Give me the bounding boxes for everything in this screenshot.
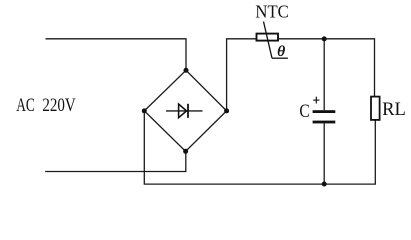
resistor RL body [371,97,380,120]
svg-text:AC: AC [16,95,35,116]
thermistor foot [272,57,288,59]
svg-text:C: C [299,102,309,122]
svg-text:NTC: NTC [255,1,288,21]
wire bottom AC horizontal + bridge bottom riser [45,151,186,171]
svg-text:220V: 220V [42,95,76,116]
thermistor NTC body [257,22,288,59]
node bridge top [184,68,189,73]
bridge rectifier diamond [144,70,226,151]
node bridge left [142,108,147,113]
svg-text:θ: θ [277,44,286,60]
wire capacitor branch upper [323,39,325,110]
node bridge right [224,108,229,113]
wire top AC horizontal + drop to bridge top [46,39,187,71]
diode D1 cathode bar [187,104,189,118]
capacitor plus sign [313,97,319,104]
svg-text:RL: RL [382,99,406,120]
junction dot top (cap/NTC node) [322,36,327,41]
diode D1 lead [166,110,203,112]
diode D1 triangle [179,104,187,118]
wire bridge right corner up, across NTC, down to RL [227,39,375,111]
junction dot bottom (cap/rail node) [322,182,327,187]
capacitor C plates [313,110,336,123]
wire RL bottom [374,120,376,184]
thermistor diagonal [264,22,273,59]
wire bridge left corner drop + bottom DC rail [144,111,376,184]
wire capacitor branch lower [323,123,325,184]
node bridge bottom [183,149,188,154]
